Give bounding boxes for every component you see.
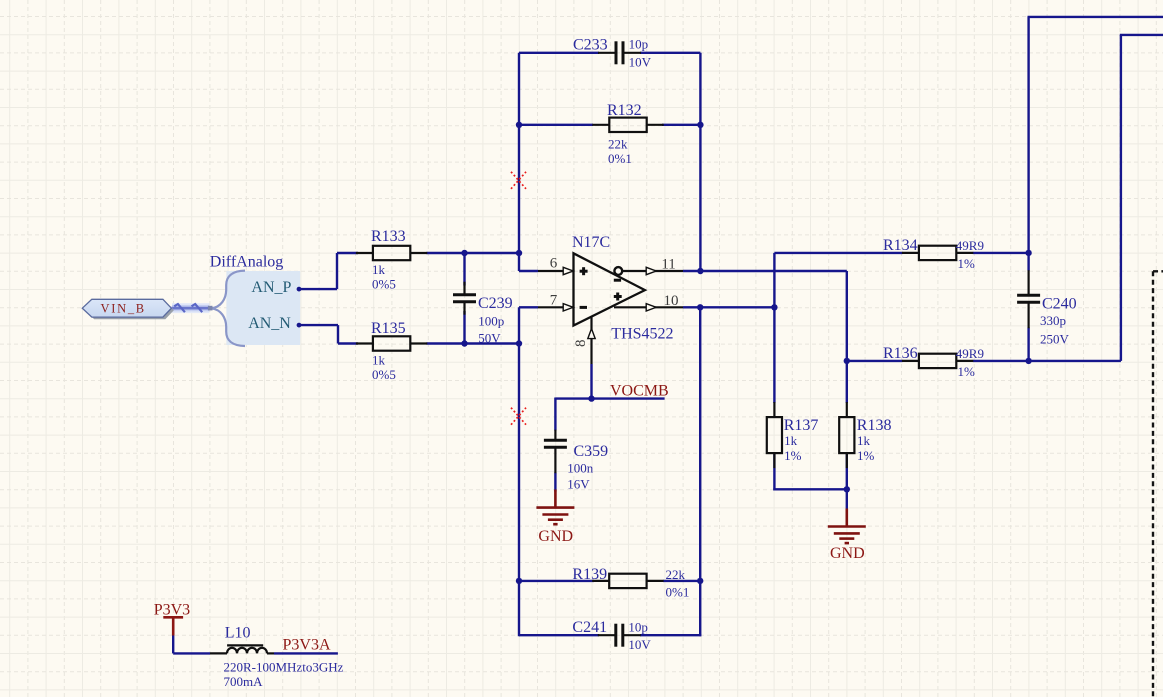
svg-text:DiffAnalog: DiffAnalog: [210, 254, 283, 271]
svg-text:R132: R132: [607, 102, 642, 119]
svg-text:R138: R138: [857, 417, 892, 434]
svg-text:49R9: 49R9: [956, 346, 984, 361]
svg-text:THS4522: THS4522: [611, 326, 673, 343]
svg-text:330p: 330p: [1040, 313, 1066, 328]
svg-text:L10: L10: [225, 625, 251, 642]
svg-text:10p: 10p: [629, 37, 649, 52]
svg-text:49R9: 49R9: [956, 238, 984, 253]
svg-text:GND: GND: [538, 528, 573, 545]
svg-text:R137: R137: [784, 417, 819, 434]
svg-text:11: 11: [661, 256, 675, 272]
svg-text:6: 6: [550, 255, 558, 271]
svg-text:GND: GND: [830, 545, 865, 562]
svg-text:100p: 100p: [478, 314, 504, 329]
svg-text:22k: 22k: [608, 136, 628, 151]
svg-text:1k: 1k: [372, 353, 386, 368]
svg-text:P3V3: P3V3: [154, 602, 190, 619]
svg-text:8: 8: [573, 340, 589, 348]
svg-text:N17C: N17C: [572, 234, 610, 251]
svg-text:1k: 1k: [372, 262, 386, 277]
svg-text:0%1: 0%1: [608, 151, 632, 166]
svg-text:1%: 1%: [784, 448, 802, 463]
svg-text:C241: C241: [572, 619, 607, 636]
svg-text:P3V3A: P3V3A: [283, 637, 331, 654]
svg-text:VOCMB: VOCMB: [610, 383, 669, 400]
svg-text:R134: R134: [883, 237, 918, 254]
svg-text:C359: C359: [574, 443, 609, 460]
svg-text:R135: R135: [371, 320, 406, 337]
svg-text:R133: R133: [371, 228, 406, 245]
svg-text:1%: 1%: [857, 448, 875, 463]
svg-text:50V: 50V: [478, 331, 501, 346]
svg-text:0%5: 0%5: [372, 367, 396, 382]
svg-text:AN_P: AN_P: [251, 279, 291, 296]
svg-text:C240: C240: [1042, 296, 1077, 313]
svg-text:100n: 100n: [567, 460, 594, 475]
svg-text:0%1: 0%1: [666, 585, 690, 600]
svg-text:22k: 22k: [666, 567, 686, 582]
svg-text:250V: 250V: [1040, 332, 1070, 347]
svg-text:VIN_B: VIN_B: [101, 302, 146, 316]
svg-text:10V: 10V: [628, 637, 651, 652]
svg-text:R136: R136: [883, 345, 918, 362]
svg-text:10: 10: [664, 293, 679, 309]
svg-text:16V: 16V: [567, 477, 590, 492]
svg-text:7: 7: [550, 292, 558, 308]
svg-text:10V: 10V: [629, 55, 652, 70]
svg-text:0%5: 0%5: [372, 277, 396, 292]
svg-text:R139: R139: [572, 566, 607, 583]
svg-text:220R-100MHzto3GHz: 220R-100MHzto3GHz: [224, 659, 344, 674]
svg-text:C239: C239: [478, 295, 513, 312]
svg-text:10p: 10p: [628, 619, 648, 634]
svg-text:1%: 1%: [958, 364, 976, 379]
svg-text:1%: 1%: [958, 256, 976, 271]
svg-text:1k: 1k: [857, 433, 871, 448]
svg-text:1k: 1k: [784, 433, 798, 448]
svg-text:C233: C233: [573, 37, 608, 54]
svg-text:700mA: 700mA: [224, 674, 264, 689]
svg-text:AN_N: AN_N: [248, 315, 291, 332]
